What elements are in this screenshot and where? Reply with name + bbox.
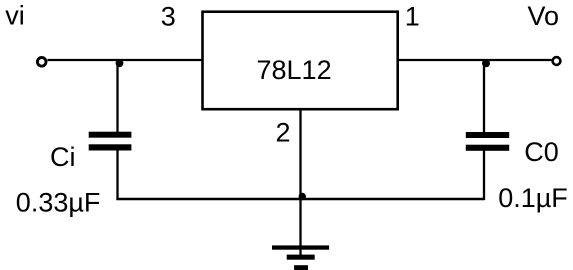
regulator U1 78L12 body (203, 12, 398, 110)
wire regulator pin 1 to output (398, 59, 552, 61)
wire input to regulator pin 3 (48, 59, 203, 61)
capacitor C0 (466, 132, 509, 151)
svg-text:Ci: Ci (50, 142, 76, 172)
svg-text:C0: C0 (524, 137, 559, 167)
input terminal (vi) (37, 58, 46, 67)
output terminal (Vo) (553, 57, 561, 65)
svg-text:0.33µF: 0.33µF (16, 188, 101, 218)
svg-text:2: 2 (276, 118, 291, 148)
svg-text:3: 3 (161, 2, 176, 32)
junction output node (482, 59, 490, 67)
wire output node down to C0 (483, 60, 485, 133)
svg-text:vi: vi (5, 1, 25, 31)
svg-text:Vo: Vo (528, 1, 560, 31)
svg-text:1: 1 (405, 2, 420, 32)
junction input node (116, 59, 124, 67)
wire regulator pin 2 down (299, 109, 301, 199)
wire C0 to ground rail (483, 151, 485, 200)
ground rail wire (116, 198, 484, 200)
junction ground node (299, 193, 306, 200)
svg-text:78L12: 78L12 (257, 55, 332, 85)
wire ground node to ground symbol (299, 199, 301, 257)
capacitor Ci (89, 132, 132, 151)
wire Ci to ground rail (116, 150, 118, 200)
ground (272, 245, 329, 270)
svg-text:0.1µF: 0.1µF (498, 183, 568, 213)
wire input node down to Ci (116, 60, 118, 133)
